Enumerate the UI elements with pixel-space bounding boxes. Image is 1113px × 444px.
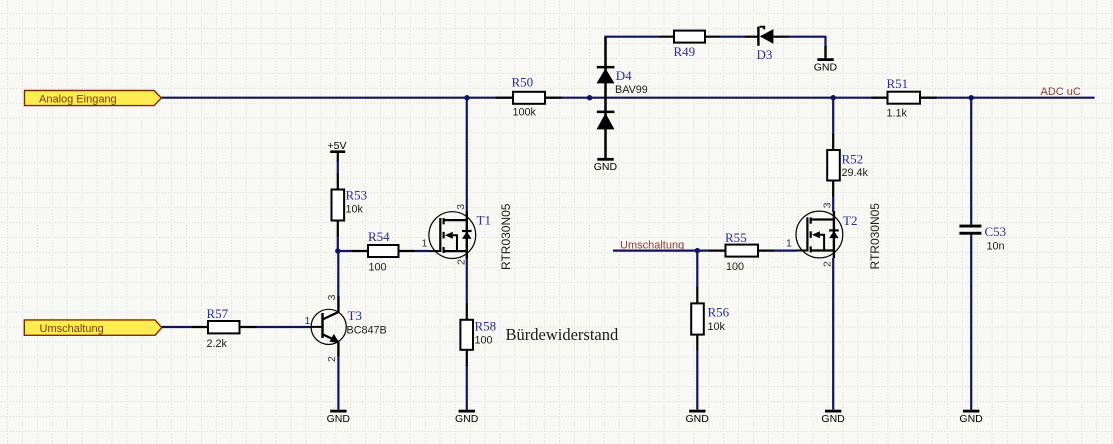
wire main analog net horizontal [161, 97, 1094, 99]
wire R53 to junction [337, 236, 339, 251]
wire R52 to T2 drain [832, 196, 834, 212]
svg-text:R58: R58 [475, 318, 497, 333]
ground T3 [327, 410, 351, 425]
wire R55 to T2 gate [774, 250, 796, 252]
svg-text:BC847B: BC847B [347, 325, 387, 337]
wire T3 collector vertical [337, 251, 339, 296]
svg-text:100: 100 [726, 261, 744, 273]
svg-text:T1: T1 [477, 212, 491, 227]
svg-text:R54: R54 [368, 229, 390, 244]
svg-text:1: 1 [422, 238, 428, 250]
pin 1 label T1 [422, 238, 428, 250]
transistor T3 BC847B [311, 294, 387, 362]
svg-text:R55: R55 [725, 230, 747, 245]
svg-text:R52: R52 [842, 152, 864, 167]
svg-text:Bürdewiderstand: Bürdewiderstand [506, 325, 619, 344]
wire C53 to GND [970, 235, 972, 410]
svg-text:10k: 10k [708, 321, 726, 333]
svg-text:RTR030N05: RTR030N05 [499, 203, 513, 270]
pin 1 label T3 [305, 315, 311, 327]
resistor R51 [872, 76, 937, 120]
svg-text:R51: R51 [887, 76, 909, 91]
svg-text:R56: R56 [708, 305, 730, 320]
svg-text:R50: R50 [512, 75, 534, 90]
resistor R50 [496, 75, 562, 119]
resistor R49 [659, 31, 720, 60]
svg-text:C53: C53 [985, 224, 1007, 239]
net flag Analog Eingang [25, 91, 162, 106]
ground R58 [455, 410, 479, 425]
svg-text:10k: 10k [346, 203, 364, 215]
svg-text:2: 2 [326, 356, 338, 362]
svg-text:T2: T2 [843, 213, 857, 228]
net label Umschaltung middle [620, 239, 684, 251]
wire flag to R57 [162, 326, 193, 328]
svg-text:2: 2 [456, 259, 468, 265]
svg-text:3: 3 [822, 202, 834, 208]
svg-text:29.4k: 29.4k [842, 167, 869, 179]
svg-text:100: 100 [369, 261, 387, 273]
wire junction to R54 [338, 250, 353, 252]
wire R57 to T3 base [256, 326, 312, 328]
svg-text:3: 3 [455, 204, 467, 210]
node junction main-T1 [464, 95, 469, 100]
svg-text:T3: T3 [348, 308, 362, 323]
svg-text:+5V: +5V [328, 140, 347, 152]
resistor R55 [710, 230, 775, 273]
wire +5V to R53 [337, 160, 339, 174]
svg-text:10n: 10n [987, 241, 1005, 253]
transistor T2 RTR030N05 [796, 202, 882, 269]
node junction R53-R54-T3 [335, 248, 340, 253]
resistor R52 [827, 134, 868, 197]
wire R58 to GND [466, 365, 468, 410]
wire C53 branch top [970, 98, 972, 225]
svg-text:R57: R57 [207, 306, 229, 321]
power +5V [328, 140, 347, 162]
resistor R58 [460, 304, 496, 366]
svg-text:R53: R53 [346, 188, 368, 203]
node junction main-D4 [587, 95, 592, 100]
svg-text:Analog Eingang: Analog Eingang [39, 93, 117, 105]
node junction main-R52 [831, 95, 836, 100]
pin 1 label T2 [786, 238, 792, 250]
wire top clamp rail [606, 37, 660, 38]
svg-text:1: 1 [305, 315, 311, 327]
wire junction to R56 [696, 251, 698, 288]
svg-text:RTR030N05: RTR030N05 [868, 203, 882, 270]
ground D4 [594, 158, 618, 173]
svg-text:R49: R49 [674, 44, 696, 59]
svg-text:D3: D3 [757, 47, 773, 62]
wire T1 drain vertical [466, 98, 468, 212]
svg-text:BAV99: BAV99 [615, 84, 648, 96]
transistor T1 RTR030N05 [429, 203, 513, 270]
resistor R53 [332, 174, 368, 238]
wire T3 emitter to GND [337, 356, 339, 410]
svg-text:1: 1 [786, 238, 792, 250]
wire D3 to GND corner [788, 37, 826, 47]
wire Umschaltung net to R55 [613, 250, 710, 252]
wire R54 to T1 gate [415, 250, 430, 252]
node junction main-C53 [969, 95, 974, 100]
ground top right (D3) [814, 46, 838, 73]
text Buerdewiderstand [506, 325, 619, 344]
diode D4 dual BAV99 [597, 37, 648, 158]
wire T2 source to GND [832, 258, 834, 410]
svg-text:100: 100 [475, 335, 493, 347]
diode D3 schottky [745, 27, 789, 62]
ground R56 [686, 410, 710, 425]
svg-text:2: 2 [822, 261, 834, 267]
capacitor C53 [959, 224, 1006, 253]
net flag Umschaltung left [24, 320, 162, 335]
svg-text:3: 3 [326, 294, 338, 300]
wire R56 to GND [696, 350, 698, 410]
ground C53 [959, 410, 983, 425]
svg-text:100k: 100k [513, 106, 537, 118]
resistor R57 [192, 306, 256, 350]
svg-text:D4: D4 [616, 68, 632, 83]
wire R52 junction vertical [832, 98, 834, 135]
ground T2 [821, 410, 845, 425]
svg-text:ADC uC: ADC uC [1041, 86, 1081, 98]
resistor R54 [352, 229, 415, 273]
wire R49 to D3 [720, 36, 745, 38]
svg-text:1.1k: 1.1k [887, 108, 908, 120]
net label ADC uC [1041, 86, 1081, 98]
wire T1 source to R58 [466, 258, 468, 304]
resistor R56 [691, 287, 729, 350]
node junction R55-R56 [695, 248, 700, 253]
svg-text:Umschaltung: Umschaltung [40, 323, 104, 335]
svg-text:2.2k: 2.2k [207, 338, 228, 350]
